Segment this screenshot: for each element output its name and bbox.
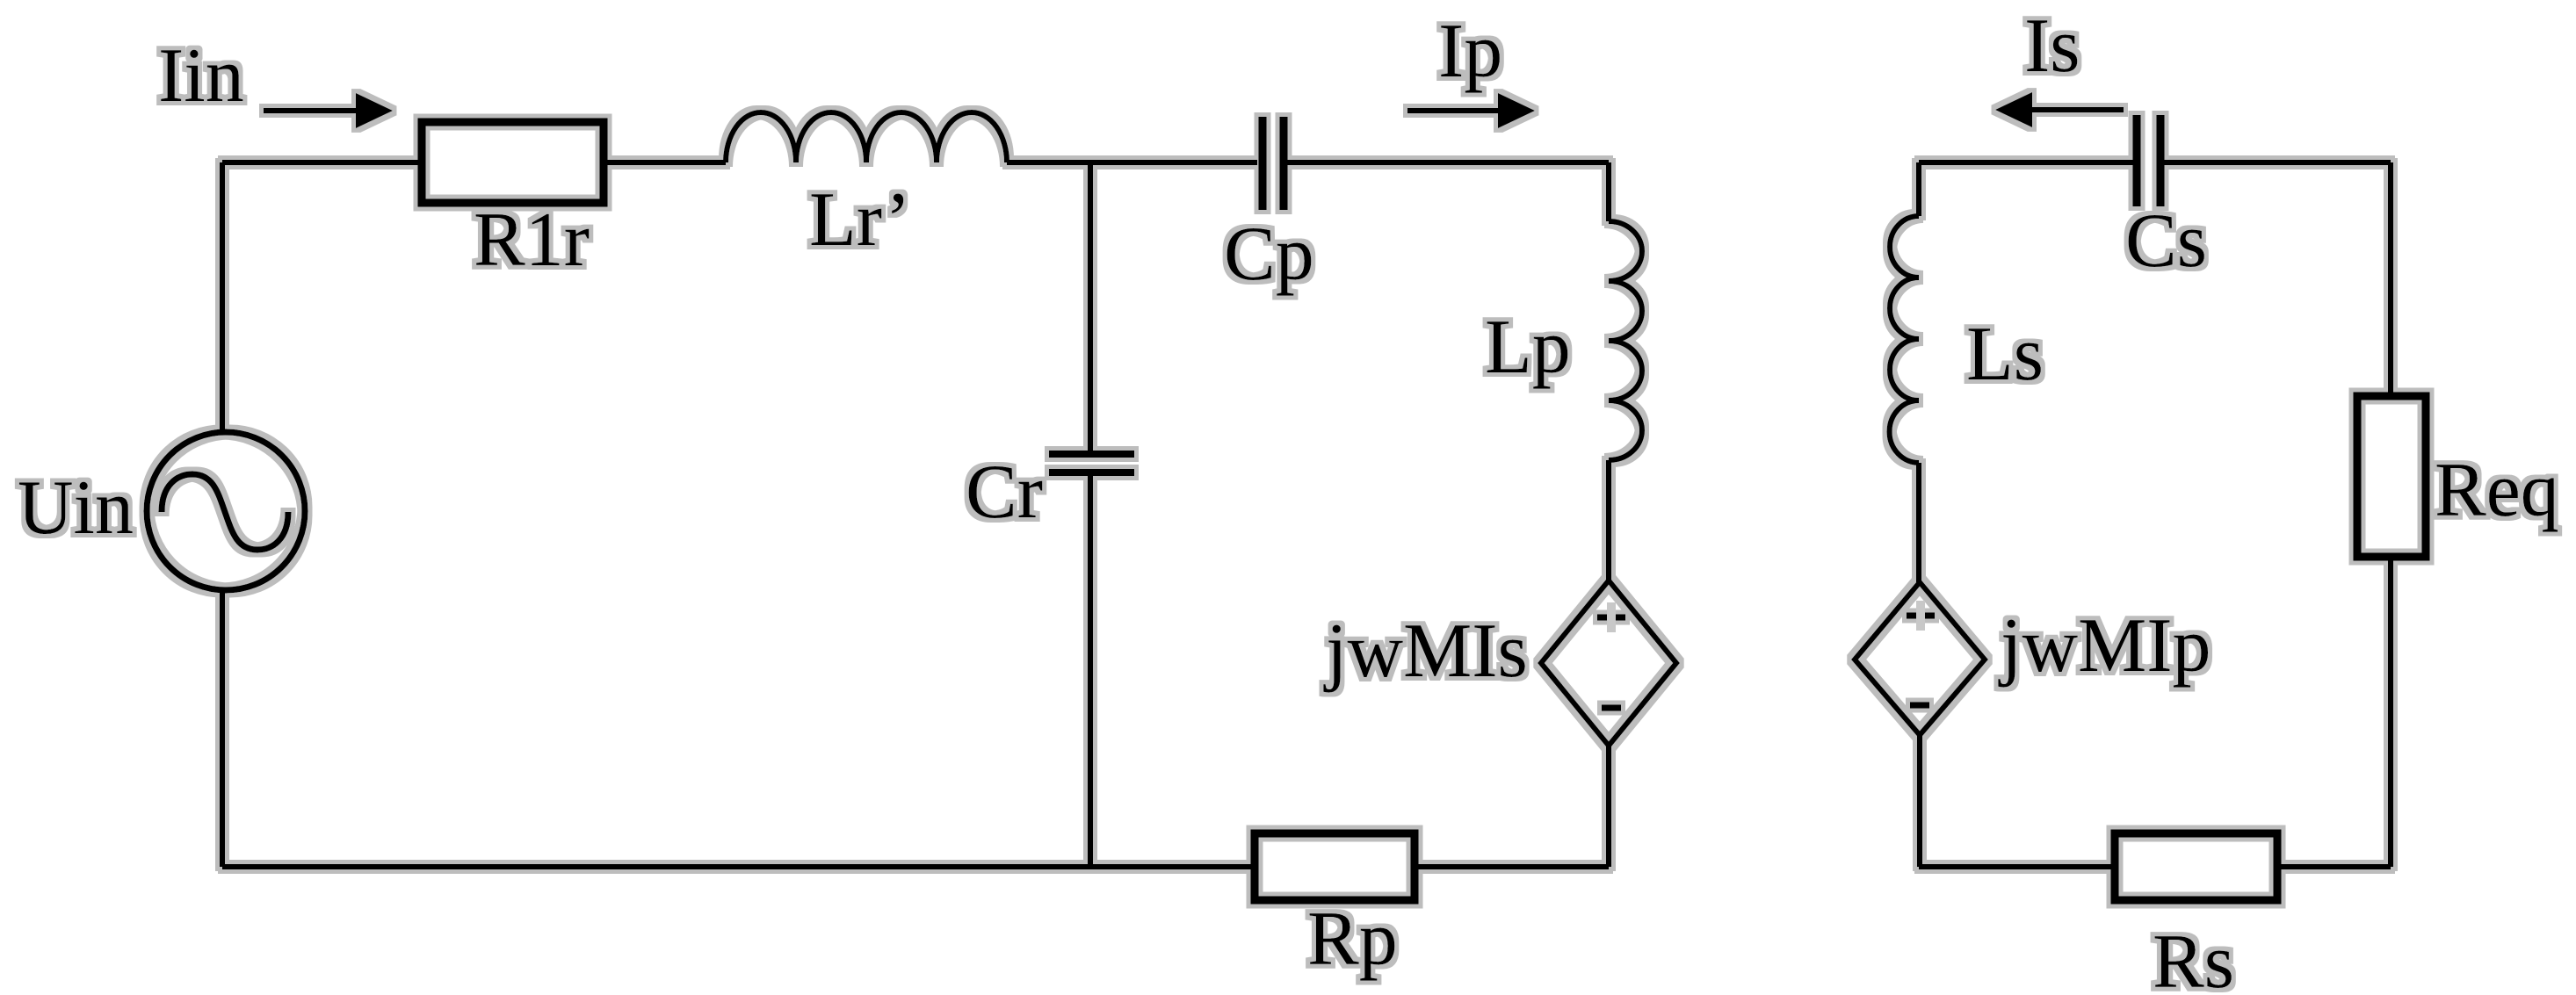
svg-text:jwMIs: jwMIs [1323,609,1528,694]
svg-text:jwMIp: jwMIp [1998,603,2211,689]
svg-text:Cs: Cs [2125,198,2207,284]
svg-text:Cr: Cr [966,450,1043,535]
svg-text:R1r: R1r [474,198,590,283]
svg-text:Ls: Ls [1966,312,2044,397]
svg-text:Iin: Iin [158,33,244,119]
svg-text:Lr’: Lr’ [809,177,911,263]
svg-text:Rs: Rs [2153,919,2234,995]
svg-text:Rp: Rp [1307,897,1398,982]
svg-text:Lp: Lp [1485,305,1571,390]
svg-text:Is: Is [2024,4,2080,89]
svg-text:Req: Req [2435,448,2559,533]
svg-text:Ip: Ip [1438,9,1502,94]
svg-text:Cp: Cp [1224,212,1314,297]
svg-text:Uin: Uin [18,465,134,551]
